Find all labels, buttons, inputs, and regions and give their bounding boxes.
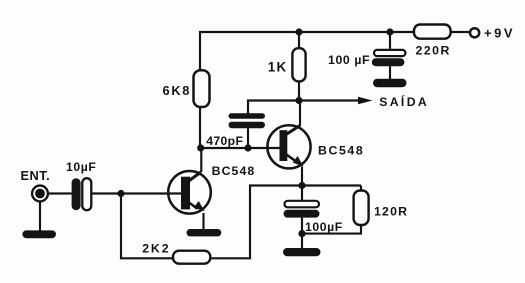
- transistor Q1 BC548: [168, 148, 211, 230]
- wire 2K2 to Q2 emitter node: [210, 186, 361, 259]
- svg-text:2K2: 2K2: [142, 242, 170, 256]
- wire cap to Q1 base: [91, 192, 181, 194]
- terminal ENT input: [32, 186, 48, 202]
- resistor 120R: [302, 186, 369, 234]
- transistor Q2 BC548: [267, 101, 310, 186]
- node 100uF/120R bottom junction: [298, 230, 305, 237]
- svg-text:100µF: 100µF: [305, 220, 343, 234]
- wire input terminal to cap: [48, 192, 72, 194]
- ground top right: [373, 79, 407, 88]
- wire collector node / output line: [248, 101, 360, 114]
- resistor 6K8: [194, 70, 210, 107]
- wire to ground bottom: [301, 234, 303, 249]
- wire rail to +9V terminal: [451, 31, 470, 33]
- capacitor 470pF: [229, 113, 266, 119]
- capacitor 100uF top: [389, 32, 391, 50]
- svg-text:100 µF: 100 µF: [328, 53, 370, 67]
- svg-text:BC548: BC548: [318, 144, 364, 158]
- svg-text:SAÍDA: SAÍDA: [379, 94, 429, 109]
- terminal +9V: [470, 28, 479, 37]
- capacitor 10uF: [72, 178, 92, 210]
- capacitor 100uF bottom: [284, 186, 320, 234]
- ground input: [22, 230, 56, 238]
- svg-text:ENT.: ENT.: [21, 168, 51, 183]
- node 470pF base junction: [244, 144, 251, 151]
- node rail 100uF junction: [386, 28, 393, 35]
- node A 6K8/Q1 collector/Q2 base: [197, 144, 204, 151]
- svg-text:10µF: 10µF: [66, 160, 96, 174]
- wire node A to Q2 base: [200, 147, 280, 149]
- svg-text:120R: 120R: [374, 205, 408, 219]
- svg-text:BC548: BC548: [212, 164, 256, 178]
- arrowhead SAIDA: [358, 97, 373, 104]
- node Q2 emitter junction: [298, 182, 305, 189]
- wire input terminal to ground: [39, 201, 41, 231]
- svg-text:6K8: 6K8: [163, 83, 192, 98]
- svg-text:+9V: +9V: [484, 26, 515, 41]
- ground bottom right: [283, 248, 321, 256]
- resistor 1K: [298, 32, 300, 49]
- resistor 220R: [414, 25, 451, 39]
- svg-text:220R: 220R: [416, 44, 451, 58]
- resistor 2K2: [173, 251, 210, 264]
- wire top supply rail: [200, 32, 414, 71]
- wire 6K8 to node A: [199, 107, 201, 148]
- ground Q1 emitter: [187, 229, 222, 236]
- wire base node down to 2K2: [121, 194, 173, 259]
- svg-text:470pF: 470pF: [206, 134, 243, 148]
- node input/2K2 junction: [117, 190, 124, 197]
- svg-text:1K: 1K: [268, 60, 288, 75]
- node output junction: [295, 97, 302, 104]
- node rail 1K junction: [295, 28, 302, 35]
